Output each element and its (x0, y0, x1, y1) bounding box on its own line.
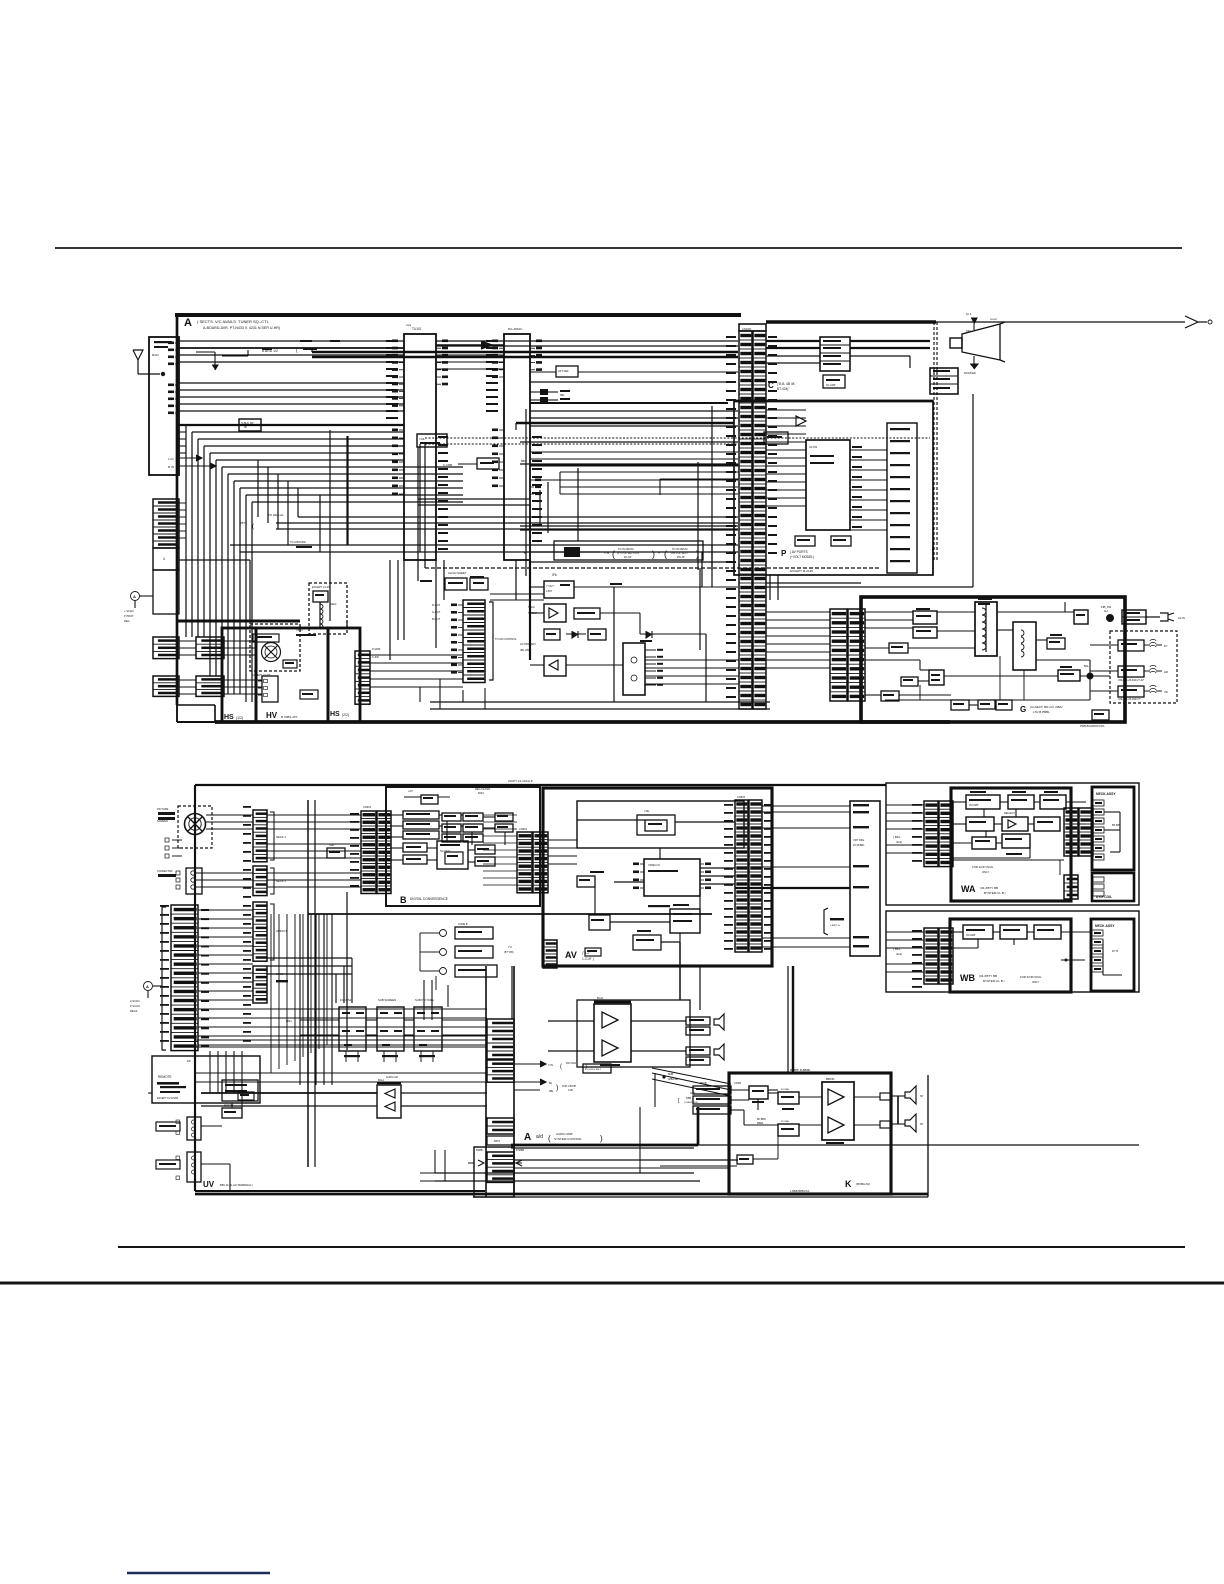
formula PNP box (564, 547, 580, 557)
G box hdef 1 (913, 611, 937, 624)
svg-text:( BKL: ( BKL (893, 947, 901, 951)
G lo box (881, 691, 899, 701)
G top connector right (1122, 610, 1146, 624)
ANT SW box (222, 1108, 242, 1118)
B boxes row1 (403, 811, 439, 819)
P-left long horizontals (530, 381, 736, 383)
service switch row 1 (440, 930, 447, 937)
mid-left wire bundle (185, 425, 187, 637)
svg-text:(MBA MB: (MBA MB (668, 1078, 678, 1081)
svg-text:MBDL: MBDL (757, 1122, 764, 1125)
control-s connector 1 (187, 1117, 201, 1140)
line-out opamp 1 (602, 1012, 618, 1028)
line-out speaker 2 (714, 1044, 724, 1060)
connector CN901 rows a (487, 1019, 514, 1059)
audio out box C (820, 337, 850, 371)
AV bpf inner (645, 820, 667, 831)
svg-text:SCREEN: SCREEN (157, 819, 168, 823)
K sub box (737, 1155, 753, 1164)
svg-text:BBB BF: BBB BF (826, 1078, 835, 1081)
G dashed DY box (1110, 631, 1177, 703)
K speaker wires (892, 1095, 905, 1097)
WA box labels (970, 791, 986, 793)
block G outline (861, 597, 1125, 722)
svg-text:A SCAN: A SCAN (130, 999, 140, 1003)
fm trap boxes row (445, 578, 467, 590)
svg-text:CONNECTOR: CONNECTOR (157, 870, 173, 873)
bottom vertical feeds (613, 587, 615, 702)
svg-text:CLB: CLB (568, 1089, 573, 1092)
svg-text:NECK ASSY: NECK ASSY (1096, 792, 1116, 796)
bottom block: B channel verticals (299, 914, 301, 1085)
svg-text:Y-IN: Y-IN (548, 1063, 553, 1067)
svg-text:EXCEPT 21-25": EXCEPT 21-25" (312, 585, 331, 589)
svg-text:ONLY 21-25 AND 27-32": ONLY 21-25 AND 27-32" (1118, 679, 1144, 682)
wires horizontal lower (514, 1159, 738, 1161)
uv opamp box (377, 1085, 401, 1118)
connector CN105 rows (196, 676, 224, 696)
CRT drive left bracket (824, 908, 828, 935)
CN204 right labels (201, 909, 209, 911)
CN701 wires from CN1001 (766, 611, 830, 613)
svg-text:HS: HS (330, 711, 340, 718)
WA wires (953, 801, 966, 803)
CN602 right labels (764, 804, 772, 806)
relay drop wire (972, 394, 974, 587)
connector AV-CNL rows (543, 940, 557, 968)
WB boxes row (963, 925, 993, 939)
CN902 side arrows (478, 1160, 484, 1166)
B sc sub box (445, 852, 463, 864)
CRT stub pins (165, 838, 169, 842)
neck2 inner wire (1102, 940, 1104, 975)
svg-text:TO IN DRUM: TO IN DRUM (618, 547, 633, 551)
bus wires mid (179, 382, 404, 384)
svg-text:CN301: CN301 (363, 805, 372, 809)
fan motor circle (262, 643, 281, 662)
K interior extra wires (731, 1099, 749, 1101)
svg-text:BL: BL (549, 1081, 553, 1085)
B channel vertical pair (307, 800, 309, 1167)
G mdet box (1058, 670, 1080, 681)
texture blobs CN1001 right labels (768, 336, 777, 338)
UV bottom border (195, 1190, 485, 1192)
P to G vertical (932, 545, 934, 575)
wire pair bottom of top block (346, 621, 348, 628)
wires IC303 to CN1001 (645, 659, 739, 661)
svg-text:REMOTE: REMOTE (158, 1075, 172, 1079)
K input connector rows (693, 1086, 731, 1094)
AV rly box (633, 935, 661, 950)
page bottom rule 1 (118, 1246, 1185, 1248)
svg-text:4BL: 4BL (549, 1089, 554, 1093)
junction dot (662, 1075, 665, 1078)
feeder terminal top right (1185, 316, 1198, 328)
block P inner border (734, 400, 933, 403)
svg-text:AUDIO AMP: AUDIO AMP (556, 1132, 573, 1136)
B shp box (327, 848, 345, 858)
svg-text:CN602: CN602 (737, 795, 746, 799)
svg-text:TO A/D CONTROL: TO A/D CONTROL (495, 637, 517, 641)
svg-text:): ) (556, 1085, 558, 1092)
tuner input box left (149, 337, 179, 475)
AV small boxes left (577, 876, 595, 887)
adjust box labels below (344, 1055, 360, 1057)
CN201 bracket a (270, 812, 274, 860)
svg-text:( SECTS. V/C AVAILS. TUNER SQ.: ( SECTS. V/C AVAILS. TUNER SQ.-CTL (197, 319, 270, 324)
G small box r1 (1047, 638, 1065, 649)
connector CN701 left col (830, 609, 847, 701)
svg-text:R-OUT: R-OUT (432, 603, 441, 607)
svg-text:Y-BL: Y-BL (644, 809, 650, 813)
block P outline (734, 401, 933, 575)
svg-text:1-BBB-BBB-PFA: 1-BBB-BBB-PFA (790, 1189, 810, 1193)
svg-text:IF6: IF6 (552, 573, 557, 577)
svg-text:(: ( (612, 549, 615, 559)
CN602 left pin labels (724, 804, 733, 806)
CN204 bracket left (162, 907, 166, 1050)
B right wires to CN601 (483, 814, 517, 816)
HV sub box with pins (262, 676, 278, 702)
bottom block: left low verticals (209, 1051, 211, 1093)
texture blobs CN1001 left labels (726, 336, 736, 338)
svg-text:A: A (184, 317, 192, 329)
connector CN1001 left column (739, 331, 752, 709)
service switch row 3 (440, 968, 447, 975)
svg-text:WB: WB (960, 973, 975, 983)
CRT label box (158, 812, 175, 815)
connector CN103 rows (196, 637, 224, 659)
IC U201 pin rows left (492, 340, 504, 379)
svg-text:BM1B: BM1B (700, 1082, 707, 1085)
A bottom-mid extra wires (490, 593, 544, 595)
K speakers (905, 1086, 916, 1104)
K power amp box (822, 1082, 854, 1140)
AV sub box low (670, 909, 700, 933)
A a/d ref box (583, 1064, 611, 1073)
control-s label 2 (156, 1160, 180, 1169)
CN801 wires left (886, 804, 924, 806)
tuner input box rows (168, 342, 179, 366)
adjust box 1 (339, 1007, 366, 1051)
wires audio to relay (850, 340, 930, 342)
svg-text:AUDIO B: AUDIO B (276, 929, 288, 933)
CRT socket dashed box (178, 806, 212, 848)
svg-text:(PT 2 OF SECT-4) N: (PT 2 OF SECT-4) N (617, 552, 639, 555)
bottom block top border (195, 784, 886, 786)
thick line above P (516, 422, 734, 424)
svg-text:LH: LH (1104, 609, 1108, 613)
svg-text:SC-AMP: SC-AMP (826, 384, 836, 387)
deg small box (313, 591, 328, 602)
svg-text:BYSTEM CL B ): BYSTEM CL B ) (984, 891, 1006, 895)
svg-text:G: G (1020, 705, 1026, 714)
A a/d bottom borders (195, 1193, 928, 1196)
svg-text:5034: 5034 (478, 791, 484, 795)
second socket box (186, 868, 202, 894)
neck inner wires (1104, 811, 1120, 813)
adjust box 3 (414, 1007, 442, 1051)
texture blobs strip2 right (532, 436, 542, 438)
B sc out box (437, 841, 468, 869)
svg-text:P: P (781, 549, 787, 558)
svg-text:(+VOLT MODEL): (+VOLT MODEL) (790, 555, 814, 559)
neck assy box 2 (1091, 919, 1134, 991)
connector CN104 rows (153, 676, 179, 696)
bottom block: long horizontals into K (514, 1159, 738, 1161)
svg-text:DY: DY (1164, 644, 1168, 648)
formula bottom line (530, 561, 728, 563)
svg-text:(BVBA AV): (BVBA AV) (856, 1182, 870, 1186)
CN301 outer labels (350, 813, 359, 815)
DY connector row 2 (1118, 666, 1144, 677)
control-s squares 2 (176, 1156, 180, 1160)
svg-text:SP: SP (920, 1123, 924, 1126)
K opamp 2 (828, 1117, 844, 1133)
block WB outline (950, 919, 1071, 992)
svg-text:ALIGN SHEET: ALIGN SHEET (448, 571, 467, 575)
connector CN701 right col (848, 609, 865, 701)
svg-text:(34-XBTY BB: (34-XBTY BB (979, 974, 997, 978)
WA strip outer labels (912, 804, 922, 806)
extra mid horizontals top block (418, 498, 530, 500)
top block texture blobs misc (300, 340, 312, 342)
CN201 bracket b (270, 868, 274, 894)
B interior extra boxes (495, 813, 513, 821)
wires strip1-strip2 (436, 354, 504, 356)
svg-text:a/d: a/d (536, 1134, 543, 1140)
IC U201 video strip (504, 334, 530, 560)
svg-text:( BKL: ( BKL (893, 835, 901, 839)
second socket squares (176, 871, 180, 875)
B boxes row3 (463, 813, 483, 821)
svg-text:BAL: BAL (1084, 664, 1089, 668)
B boxes row2 (442, 813, 461, 821)
svg-text:BAL1: BAL1 (378, 1078, 385, 1082)
svg-text:CN601: CN601 (519, 827, 528, 831)
K mute box 2 (778, 1124, 799, 1136)
AV bottom exit verticals (699, 966, 701, 1010)
svg-text:P-MNS: P-MNS (372, 647, 381, 651)
B 7805 box (421, 795, 438, 804)
speaker ground stub (973, 356, 975, 364)
svg-text:VIDEO IC: VIDEO IC (648, 863, 660, 867)
G interior extra (885, 699, 1090, 701)
svg-text:( AV PORTS: ( AV PORTS (790, 550, 808, 554)
corner verticals for lower pair (346, 436, 348, 545)
h-lines lower mid (530, 479, 738, 481)
svg-text:SHP: SHP (329, 843, 335, 847)
K inner wires (731, 1089, 749, 1091)
WA boxes row1 (966, 795, 1000, 809)
svg-text:BY BBB: BY BBB (781, 1089, 789, 1091)
AV wires from B (548, 839, 577, 841)
K mute box 1 (778, 1092, 799, 1104)
G box hdef 2 (913, 627, 937, 638)
B interior verticals (446, 821, 448, 841)
IC U101 pin rows right (436, 340, 448, 386)
AV-CRT wires (762, 805, 850, 807)
wires CN to audio box (766, 340, 820, 342)
svg-text:B: B (524, 551, 526, 555)
audio line-out amp box (594, 1004, 631, 1062)
svg-text:C-INF: C-INF (372, 655, 379, 659)
connector CN902 rows (487, 1152, 514, 1182)
remote receiver outer box (152, 1056, 260, 1103)
svg-text:A-BOARD-AVR. PT-N433 V. 4231: A-BOARD-AVR. PT-N433 V. 4231 N.SER U-HR) (203, 326, 280, 330)
P wires left from CN (766, 409, 806, 411)
svg-text:LTH B PBBL: LTH B PBBL (1033, 710, 1050, 714)
connector CN802 left col (1064, 808, 1078, 856)
svg-text:FOR L BKHP: FOR L BKHP (562, 1085, 577, 1088)
svg-text:S BLK SP: S BLK SP (241, 421, 254, 425)
svg-text:mini: mini (406, 323, 412, 327)
line-out connector rows (686, 1017, 710, 1025)
svg-text:= M: = M (604, 551, 610, 555)
CN101 sub box (153, 548, 179, 570)
K labels (752, 1101, 764, 1103)
connector CN602 right col (749, 800, 762, 952)
K long input wires (514, 1167, 729, 1169)
diode D302 (640, 633, 660, 635)
svg-text:NECK ASSY: NECK ASSY (1095, 924, 1115, 928)
svg-text:VR: VR (1164, 690, 1168, 694)
svg-text:L IN: L IN (168, 457, 173, 461)
svg-text:.JW: .JW (186, 1059, 191, 1063)
connector CN102 rows (153, 637, 179, 659)
svg-text:FOCUS2: FOCUS2 (340, 998, 352, 1002)
K out connectors (880, 1093, 892, 1100)
svg-text:C-CMB: C-CMB (443, 463, 452, 467)
CN203 wires right (267, 957, 352, 959)
ground symbol bottom block (144, 982, 153, 991)
svg-text:WOOFER: WOOFER (964, 371, 976, 375)
IF trap box (239, 419, 261, 431)
WA boxes row3 (972, 837, 996, 849)
AV to K thick vertical (792, 966, 794, 1073)
svg-text:TU101: TU101 (412, 327, 422, 331)
fan dashed box (250, 624, 300, 671)
uv wires (201, 1092, 377, 1094)
deg wires triple (298, 516, 738, 518)
connector CN804 left col (924, 928, 938, 984)
connector CN101 rows (153, 499, 179, 548)
svg-text:CRT DRL: CRT DRL (853, 838, 865, 842)
block K outline (729, 1073, 891, 1194)
svg-text:BY BBB: BY BBB (781, 1121, 789, 1123)
adjust wires down (345, 1051, 347, 1062)
CN901 out arrows right (514, 1063, 540, 1065)
thick signal pair to connector (312, 351, 738, 354)
bottom area long wires (430, 701, 770, 703)
K amp wires (799, 1096, 822, 1098)
svg-text:SUB SCREEN: SUB SCREEN (378, 998, 396, 1002)
svg-text:PICTURE: PICTURE (157, 807, 169, 811)
svg-text:ONLY 21-25 AND 27": ONLY 21-25 AND 27" (1118, 698, 1141, 701)
right vert borders (927, 1075, 929, 1197)
bottom extra verticals (423, 980, 425, 1020)
service switch row 2 (440, 949, 447, 956)
neck assy 1 connector rows (1093, 800, 1104, 806)
svg-text:): ) (696, 549, 699, 559)
P region formula box (554, 541, 703, 560)
diode D301 (566, 633, 586, 635)
small filter boxes row (544, 629, 560, 640)
B interior wires (439, 814, 442, 816)
svg-text:TU: TU (508, 945, 512, 949)
svg-text:BMB: BMB (668, 1073, 674, 1076)
G bottom right box (1092, 710, 1109, 720)
block B bottom line (308, 913, 712, 915)
svg-text:BF BBN: BF BBN (757, 1118, 766, 1121)
pin cluster small (530, 479, 541, 496)
dy coil box (1092, 873, 1134, 901)
AV bpf outer (637, 815, 675, 835)
svg-text:(: ( (560, 1064, 562, 1070)
svg-text:WA: WA (961, 884, 976, 894)
svg-text:REG FILTER: REG FILTER (475, 787, 490, 791)
svg-text:JBL 2W: JBL 2W (520, 648, 530, 652)
speaker SP1 horn (950, 338, 962, 348)
delay line dashed pair (425, 437, 930, 439)
wire FM with box (179, 424, 404, 426)
second socket label (158, 874, 176, 877)
connector CN502 rows (355, 651, 370, 704)
svg-text:HR: HR (1164, 670, 1168, 674)
DY connector row 1 (1118, 640, 1144, 651)
bottom block: CN204 to strip wires (198, 909, 253, 911)
adjust box 2 (377, 1007, 404, 1051)
G deg ball (1107, 615, 1114, 622)
CN301 left wires (267, 814, 361, 816)
G plug right (1146, 616, 1160, 618)
AV ic pins (633, 863, 644, 890)
svg-text:REGS: REGS (130, 1009, 138, 1013)
CRT socket circle (185, 814, 206, 835)
svg-text:C1-SDN-4 BBL1: C1-SDN-4 BBL1 (585, 1069, 602, 1071)
speaker relay box (930, 368, 958, 394)
R OUT branch (179, 465, 210, 467)
IC U101 pin rows left (392, 340, 404, 407)
DY connector row 3 (1118, 686, 1144, 697)
svg-text:ONLY: ONLY (1032, 980, 1040, 984)
adjust input wires (300, 1019, 339, 1021)
svg-text:+5V: +5V (408, 789, 413, 793)
left wires to channel (195, 1039, 487, 1041)
svg-text:AUDIO AM: AUDIO AM (386, 1076, 398, 1079)
K opamp 1 (828, 1089, 844, 1105)
router wires left column (257, 460, 259, 517)
bottom left wire pair to UV (195, 1072, 260, 1074)
CRT wires to strip (206, 814, 253, 816)
AV box labels (648, 905, 670, 907)
svg-text:B7MBB: B7MBB (516, 1149, 525, 1152)
AV inner top box (577, 801, 744, 848)
connector CN202 rows (253, 902, 267, 961)
neck assy box 1 (1092, 787, 1134, 870)
connector CN301 right col (377, 811, 391, 894)
svg-text:("B.B. 4B 4K: ("B.B. 4B 4K (777, 382, 796, 386)
P-left corner verticals (539, 490, 541, 525)
vertical feeds below P (701, 552, 703, 587)
AV video ic (644, 859, 700, 896)
svg-text:4 BIT: 4 BIT (546, 589, 553, 593)
buffer opamp box 2 (544, 656, 566, 676)
connector CN203 rows (253, 966, 267, 1003)
svg-text:L BATT 4s: L BATT 4s (830, 924, 841, 927)
IC U201 pin rows right (530, 340, 542, 371)
wires fm section (530, 586, 544, 588)
